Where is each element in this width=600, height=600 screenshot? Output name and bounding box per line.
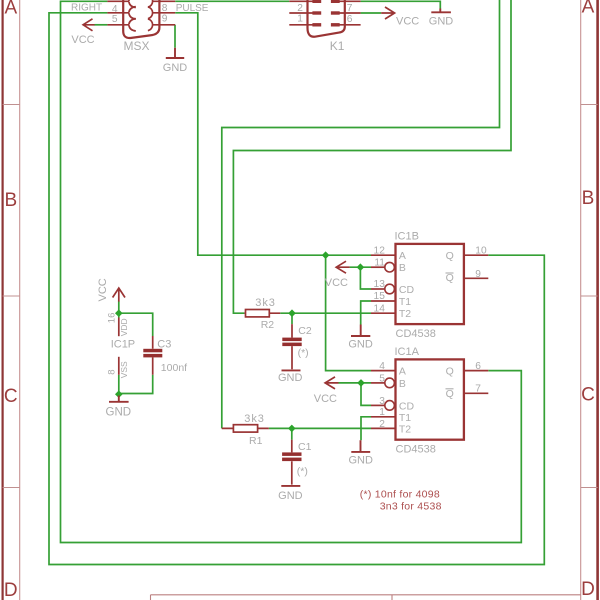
CAPACITOR C3 [143,336,162,375]
svg-text:13: 13 [374,279,386,290]
IC1A CD4538 [325,359,488,452]
supply symbol VCC at IC1A.B [325,377,338,389]
K1 contact right row1 [331,11,340,14]
ground symbol at MSX pin9 [166,48,184,58]
MSX contact left row1 [129,7,136,19]
svg-text:K1: K1 [330,39,345,53]
svg-text:CD: CD [399,284,415,296]
JUNCTIONS [115,251,365,432]
svg-text:GND: GND [348,338,373,350]
MSX pin 9 [152,24,175,26]
wire branch IC1B.B to IC1B.CD [360,267,371,289]
svg-text:D: D [4,580,18,600]
svg-text:B: B [399,378,406,390]
svg-text:VCC: VCC [314,393,337,405]
K1 contact left row0 [312,0,321,3]
wire net to R2 left [233,0,511,313]
supply symbol VCC at K1 pin7 [381,7,394,19]
svg-text:GND: GND [348,455,373,467]
MSX contact right row1 [148,7,153,19]
svg-text:3k3: 3k3 [244,413,264,425]
svg-text:1: 1 [297,14,303,25]
svg-text:GND: GND [163,62,188,74]
svg-text:5: 5 [379,373,385,384]
wire IC1A.T1 to GND [361,417,371,441]
junction R2/C2/T2 node [288,309,296,317]
wire net K1 row to R1 left [222,0,500,428]
wire net PULSE branch to IC1A.A [326,255,371,370]
svg-text:IC1P: IC1P [111,339,135,351]
svg-text:VCC: VCC [396,16,419,28]
svg-text:T2: T2 [399,423,411,435]
svg-text:9: 9 [162,14,168,25]
IC1A pin 6 Q [464,370,488,372]
IC1P POWER GATE [109,288,129,402]
frame row divider A|B left [3,104,20,106]
svg-text:B: B [4,190,17,211]
IC1A pin 3 CD inverted [371,404,385,406]
svg-text:A: A [399,366,406,378]
NOTE TEXT [360,489,442,513]
svg-text:IC1B: IC1B [395,231,419,243]
POWER SYMBOLS TOP [83,7,451,58]
svg-text:9: 9 [475,269,481,280]
IC1A pin 7 Qbar [464,392,488,394]
svg-text:1: 1 [379,407,385,418]
svg-text:10: 10 [475,246,487,257]
junction VCC at IC1P.VDD [115,309,123,317]
frame left thick border [1,0,3,600]
K1 pin top-right [340,0,361,2]
IC1B pin 9 Qbar [464,277,488,279]
CAPACITOR C2 [282,324,302,370]
MSX contact left row2 [129,19,136,31]
svg-text:A: A [582,0,595,18]
IC1A pin 5 B inverted [371,382,385,384]
K1 pin 7 [340,12,361,14]
K1 pin 2 [289,12,312,14]
IC1B pin 11 B inverted [371,266,385,268]
svg-text:8: 8 [106,370,117,375]
op-amp-box IC1A body [396,359,464,439]
supply symbol VCC at MSX pin5 [83,19,95,31]
wire branch node to C2 [291,313,293,324]
junction PULSE at IC1B.A [322,251,330,259]
svg-text:GND: GND [278,490,303,502]
frame right thick border [596,0,599,600]
junction VCC at IC1A.B [357,379,365,387]
svg-text:VCC: VCC [97,278,109,301]
wire IC1P.VSS to GND [118,375,120,396]
svg-text:6: 6 [347,14,353,25]
CONNECTOR MSX [107,0,175,38]
svg-text:C: C [4,386,18,407]
NET WIRES [49,0,544,565]
svg-text:8: 8 [162,3,168,14]
svg-text:IC1A: IC1A [395,346,420,358]
RESISTOR R1 [222,425,269,432]
CAPACITOR C1 [281,440,301,486]
frame row divider B|C right [581,295,598,297]
svg-text:B: B [582,188,595,209]
capacitor C1 [291,440,293,485]
svg-text:R2: R2 [261,319,275,331]
capacitor C2 [291,324,293,369]
wire net IC1A.Q to MSX top-left pin [61,1,522,542]
IC1B pin 15 T1 [371,300,396,302]
CONNECTOR K1 [289,0,360,37]
svg-text:(*) 10nf for 4098: (*) 10nf for 4098 [360,489,440,501]
junction VCC at IC1B.B [357,263,365,271]
ground symbol at IC1B.T1 [351,325,370,337]
svg-text:7: 7 [347,3,353,14]
svg-text:T1: T1 [399,296,411,308]
frame row divider B|C left [3,295,20,297]
svg-text:6: 6 [475,361,481,372]
svg-text:VSS: VSS [119,361,129,378]
wire net PULSE MSX pin8 to IC1B.A [175,13,371,255]
RESISTOR R2 [244,310,280,317]
wire R2 right to IC1B.T2 [280,312,371,314]
svg-text:11: 11 [374,257,385,268]
svg-text:15: 15 [374,291,386,302]
frame right thin column line [580,0,582,600]
svg-text:7: 7 [475,384,481,395]
wire net RIGHT IC1B.Q to MSX pin4 [49,13,544,565]
svg-text:D: D [581,579,595,600]
IC1P pin 8 VSS [118,357,120,375]
svg-text:2: 2 [379,419,385,430]
svg-text:CD4538: CD4538 [396,328,436,340]
IC1A pin 4 A [371,370,396,372]
wire VCC to IC1A.B [339,382,372,384]
svg-text:Q: Q [446,250,454,262]
svg-text:T1: T1 [399,412,411,424]
MSX pin 8 [152,12,175,14]
supply symbol VCC at IC1P [113,288,125,302]
svg-text:(*): (*) [297,465,308,477]
IC1A pin 1 T1 [371,416,396,418]
wire C3 bottom to node [119,375,153,394]
title block mid tick [391,595,393,600]
svg-text:12: 12 [374,246,386,257]
svg-text:Q: Q [446,272,454,284]
svg-text:16: 16 [106,313,117,324]
frame row divider C|D right [581,487,598,489]
title block left tick [150,595,152,600]
resistor R1 3k3 [233,425,257,432]
wire branch IC1A.B to IC1A.CD [361,383,371,406]
K1 contact left row1 [312,11,321,14]
frame row divider C|D left [3,487,20,489]
svg-text:A: A [4,0,17,18]
MSX pin top-left [107,0,129,2]
K1 pin top-left [289,0,312,2]
svg-text:(*): (*) [298,347,309,359]
svg-text:C: C [581,385,595,406]
MSX pin 4 [107,12,129,14]
MSX pin top-right [152,0,175,2]
wire branch node to C1 [291,428,293,439]
svg-text:C1: C1 [298,441,312,453]
svg-text:VCC: VCC [71,34,94,46]
svg-text:CD: CD [399,400,415,412]
IC1B pin 13 CD inverted [371,288,385,290]
svg-text:VCC: VCC [325,277,348,289]
svg-text:100nf: 100nf [161,362,187,374]
svg-text:T2: T2 [399,308,411,320]
op-amp-box IC1B body [396,244,464,324]
IC1B pin 14 T2 [371,312,396,314]
ground symbol at C2 [282,369,301,371]
title block top line [151,594,581,596]
svg-text:PULSE: PULSE [176,3,209,14]
IC1B pin 10 Q [464,254,488,256]
wire IC1B.T1 to GND [361,301,371,325]
svg-text:3: 3 [379,396,385,407]
svg-text:Q: Q [446,388,454,400]
ground symbol at IC1A.T1 [351,440,370,452]
resistor R2 3k3 [246,310,270,317]
connector MSX body [123,0,159,38]
wire MSX pin9 to GND [174,25,176,48]
svg-text:B: B [399,262,406,274]
ground symbol at IC1P [109,396,129,402]
supply symbol VCC at IC1B.B [336,261,349,273]
wire K1 pin7 to VCC [361,12,382,14]
MSX contact right row0 [148,0,153,7]
K1 contact right row2 [331,23,340,26]
IC1P pin 16 VDD [118,318,120,337]
svg-text:VDD: VDD [119,318,129,336]
svg-text:A: A [399,250,406,262]
svg-text:5: 5 [112,14,118,25]
MSX contact left row0 [129,0,136,8]
wire node to C3 top [119,313,153,336]
junction R1/C1/T2 node [288,425,296,433]
K1 contact right row0 [331,0,340,3]
wire K1 top-right pin to GND [361,1,441,8]
wire R1 right to IC1A.T2 [269,427,371,429]
svg-text:GND: GND [278,372,303,384]
MSX pin 5 [107,24,129,26]
wire VCC to IC1B.B [350,266,371,268]
ground symbol at C1 [281,485,300,487]
capacitor C3 100nf [152,336,154,375]
svg-text:3n3 for 4538: 3n3 for 4538 [380,500,442,512]
svg-text:GND: GND [106,407,132,419]
wire MSX pin5 to VCC [94,24,107,26]
svg-text:GND: GND [429,15,454,27]
svg-text:14: 14 [374,303,386,314]
svg-text:Q: Q [446,366,454,378]
svg-text:C2: C2 [298,325,312,337]
ground symbol at K1 top-right [431,9,451,13]
K1 pin 1 [289,24,312,26]
frame left thin column line [19,0,21,600]
K1 pin 6 [340,24,361,26]
wire VCC to IC1P.VDD [118,302,120,318]
svg-text:3k3: 3k3 [255,297,275,309]
frame row divider A|B right [581,104,598,106]
IC1A pin 2 T2 [371,427,396,429]
K1 contact left row2 [312,23,321,26]
wire MSX top-right pin to K1 top-left pin [175,0,289,2]
svg-text:CD4538: CD4538 [396,443,436,455]
IC1B CD4538 [336,244,488,336]
connector K1 body [308,0,345,37]
svg-text:C3: C3 [157,339,171,351]
svg-text:R1: R1 [249,435,263,447]
IC1B pin 12 A [371,254,396,256]
MSX contact right row2 [148,19,153,31]
svg-text:RIGHT: RIGHT [71,3,102,14]
junction GND at IC1P.VSS [115,390,123,398]
svg-text:4: 4 [379,361,385,372]
svg-text:MSX: MSX [124,39,150,53]
